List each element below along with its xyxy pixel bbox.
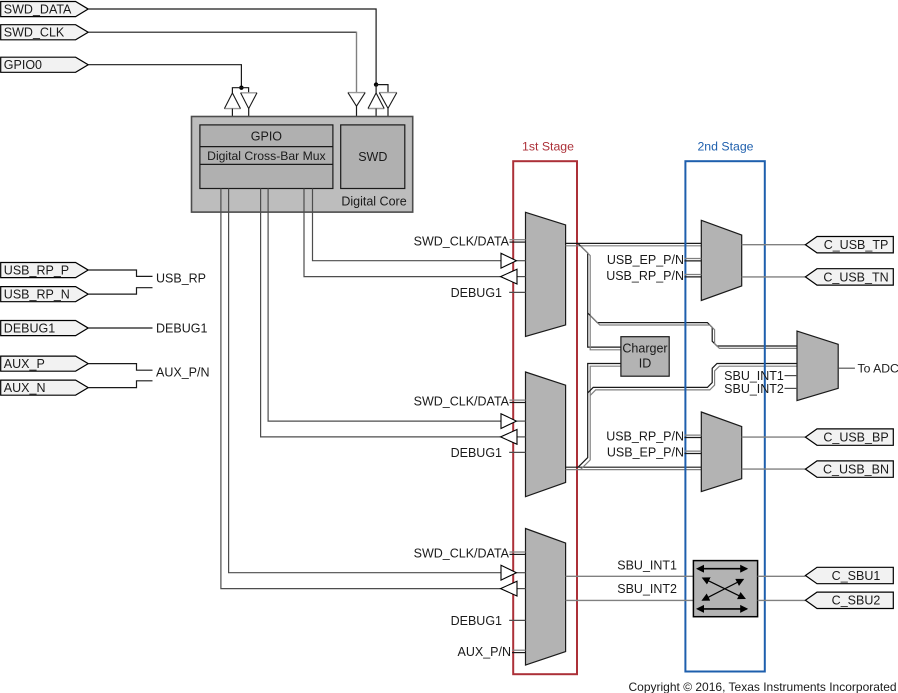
bus stub USB_EP_P/N into N1 xyxy=(684,259,701,261)
svg-text:AUX_P: AUX_P xyxy=(4,357,45,371)
svg-text:USB_EP_P/N: USB_EP_P/N xyxy=(607,446,684,460)
port flag C_SBU2 xyxy=(805,592,893,608)
wire AUX_N to AUX_P/N xyxy=(88,381,152,388)
mux U-ADC (to ADC) xyxy=(797,331,838,401)
port flag USB_RP_N xyxy=(1,287,89,302)
SBU crossbar switch block xyxy=(693,561,757,617)
bus stub USB_RP_P/N into N2 xyxy=(684,435,701,437)
wire N2 output C_USB_BP xyxy=(742,436,806,438)
net label SBU_INT2 (crossbar) xyxy=(617,582,677,596)
svg-text:USB_RP: USB_RP xyxy=(156,272,206,286)
port flag C_USB_BN xyxy=(805,461,893,477)
svg-text:SWD_CLK/DATA: SWD_CLK/DATA xyxy=(414,395,510,409)
svg-text:Copyright © 2016, Texas Instru: Copyright © 2016, Texas Instruments Inco… xyxy=(629,680,897,693)
svg-text:USB_RP_P: USB_RP_P xyxy=(4,263,69,277)
port flag C_SBU1 xyxy=(805,567,893,583)
wire crossbar to mux1 output buffer xyxy=(304,189,501,277)
svg-text:DEBUG1: DEBUG1 xyxy=(4,321,55,335)
bus stub USB_RP_P/N into N1 xyxy=(684,275,701,277)
svg-text:USB_RP_P/N: USB_RP_P/N xyxy=(606,269,684,283)
svg-text:SWD_CLK/DATA: SWD_CLK/DATA xyxy=(414,547,510,561)
2nd stage boundary box xyxy=(685,161,764,671)
net label USB_RP_P/N (N1) xyxy=(606,269,684,283)
wire AUX_P to AUX_P/N xyxy=(88,364,152,371)
output buffer M1 xyxy=(501,269,526,284)
bus stub SWD_CLK/DATA into M3 xyxy=(510,552,526,554)
svg-text:SWD_DATA: SWD_DATA xyxy=(4,2,72,16)
svg-text:C_USB_TP: C_USB_TP xyxy=(824,238,889,252)
port flag AUX_P xyxy=(1,356,89,371)
wire SBU_INT2 stub into ADC mux xyxy=(785,387,798,389)
wire DEBUG1 stub M1 xyxy=(509,291,525,293)
svg-text:DEBUG1: DEBUG1 xyxy=(451,286,502,300)
port flag C_USB_BP xyxy=(805,429,893,445)
port flag USB_RP_P xyxy=(1,263,89,278)
wire crossbar to mux1 input buffer xyxy=(313,189,502,261)
bus tee H1 to ADC mux input 1 xyxy=(588,313,797,348)
wire SBU_INT2 M3 to crossbar xyxy=(566,599,694,601)
net label AUX_P/N (M3) xyxy=(458,645,512,659)
bus branch down from B1 (vertical channel upper) xyxy=(578,243,621,349)
wire DEBUG1 flag to label xyxy=(88,327,152,329)
net label SWD_CLK/DATA (M3) xyxy=(414,547,510,561)
svg-text:USB_EP_P/N: USB_EP_P/N xyxy=(607,253,684,267)
svg-text:Digital Cross-Bar Mux: Digital Cross-Bar Mux xyxy=(207,149,326,163)
wire SWD_CLK xyxy=(88,32,356,93)
wire ADC mux output xyxy=(838,367,855,369)
net label DEBUG1 (left) xyxy=(156,321,207,335)
svg-text:DEBUG1: DEBUG1 xyxy=(156,321,207,335)
wire crossbar to C_SBU1 xyxy=(758,575,806,577)
svg-text:2nd Stage: 2nd Stage xyxy=(697,140,753,154)
wire DEBUG1 stub M2 xyxy=(509,451,525,453)
port flag SWD_DATA xyxy=(1,2,89,17)
wire N2 output C_USB_BN xyxy=(742,468,806,470)
wire DEBUG1 stub M3 xyxy=(509,619,525,621)
bus stub AUX_P/N into M3 xyxy=(512,650,526,652)
1st stage boundary box xyxy=(513,161,577,674)
svg-text:Digital Core: Digital Core xyxy=(341,194,406,208)
svg-text:SBU_INT2: SBU_INT2 xyxy=(617,582,677,596)
input buffer M3 xyxy=(501,565,526,580)
svg-text:C_SBU1: C_SBU1 xyxy=(832,569,881,583)
svg-text:GPIO: GPIO xyxy=(251,130,283,144)
wire crossbar to mux2 input buffer xyxy=(268,189,501,422)
net label SBU_INT2 (ADC mux) xyxy=(724,382,784,396)
svg-text:DEBUG1: DEBUG1 xyxy=(451,446,502,460)
wire SWD_DATA xyxy=(88,9,378,87)
wire SBU_INT1 M3 to crossbar xyxy=(566,575,694,577)
2nd stage label xyxy=(697,140,753,154)
wire N1 output C_USB_TP xyxy=(742,244,806,246)
svg-text:SWD: SWD xyxy=(358,150,387,164)
net label USB_EP_P/N (N2) xyxy=(607,446,684,460)
svg-text:USB_RP_P/N: USB_RP_P/N xyxy=(606,430,684,444)
svg-text:AUX_P/N: AUX_P/N xyxy=(458,645,512,659)
input buffer GPIO0 (down triangle) xyxy=(241,93,257,125)
net label DEBUG1 (M2) xyxy=(451,446,502,460)
net label SBU_INT1 (ADC mux) xyxy=(724,369,784,383)
mux N1 (2nd stage top) xyxy=(701,220,741,300)
bus stub SWD_CLK/DATA into M2 xyxy=(510,400,526,402)
svg-text:GPIO0: GPIO0 xyxy=(4,58,42,72)
input buffer SWD_CLK (down triangle) xyxy=(348,93,365,125)
wire GPIO0 pad junction legs xyxy=(232,88,248,93)
svg-text:USB_RP_N: USB_RP_N xyxy=(4,288,70,302)
port flag DEBUG1 xyxy=(1,321,89,336)
port flag AUX_N xyxy=(1,380,89,395)
bus stub USB_EP_P/N into N2 xyxy=(684,451,701,453)
svg-text:C_USB_BP: C_USB_BP xyxy=(823,431,888,445)
net label SWD_CLK/DATA (M1) xyxy=(414,234,510,248)
svg-text:DEBUG1: DEBUG1 xyxy=(451,614,502,628)
svg-text:To ADC: To ADC xyxy=(858,362,898,376)
bus tee H2 to ADC mux input 2 xyxy=(588,364,797,396)
net label USB_EP_P/N (N1) xyxy=(607,253,684,267)
wire crossbar to mux3 output buffer xyxy=(221,189,501,589)
net label DEBUG1 (M3) xyxy=(451,614,502,628)
svg-text:C_USB_BN: C_USB_BN xyxy=(823,463,889,477)
wire SWD_DATA hook to input buffer xyxy=(376,85,388,93)
svg-text:SBU_INT2: SBU_INT2 xyxy=(724,382,784,396)
bus M2 output to N2 xyxy=(566,467,702,469)
bus M1 output to N1 xyxy=(566,243,702,245)
port flag GPIO0 xyxy=(1,57,89,72)
svg-text:SBU_INT1: SBU_INT1 xyxy=(724,369,784,383)
output buffer SWD_DATA (up triangle) xyxy=(368,85,384,125)
bus stub SWD_CLK/DATA into M1 xyxy=(510,240,526,242)
net label AUX_P/N xyxy=(156,365,210,379)
mux M2 (1st stage middle) xyxy=(526,372,566,497)
svg-text:SWD_CLK: SWD_CLK xyxy=(4,26,65,40)
output buffer M2 xyxy=(501,430,526,445)
GPIO / cross-bar mux block xyxy=(200,125,333,189)
net label USB_RP xyxy=(156,272,206,286)
svg-text:1st Stage: 1st Stage xyxy=(522,140,574,154)
wire USB_RP_P to USB_RP xyxy=(88,270,152,276)
mux M3 (1st stage bottom) xyxy=(526,529,566,666)
digital core block xyxy=(192,117,413,213)
mux N2 (2nd stage middle) xyxy=(701,412,741,492)
copyright note xyxy=(629,680,897,693)
net label SWD_CLK/DATA (M2) xyxy=(414,395,510,409)
net label SBU_INT1 (crossbar) xyxy=(617,559,677,573)
wire crossbar to mux3 input buffer xyxy=(229,189,501,573)
svg-text:SWD_CLK/DATA: SWD_CLK/DATA xyxy=(414,234,510,248)
svg-text:SBU_INT1: SBU_INT1 xyxy=(617,559,677,573)
net label USB_RP_P/N (N2) xyxy=(606,430,684,444)
svg-text:C_SBU2: C_SBU2 xyxy=(832,594,881,608)
svg-text:Charger: Charger xyxy=(622,341,667,355)
port flag C_USB_TP xyxy=(805,237,893,253)
svg-text:ID: ID xyxy=(639,356,652,370)
output buffer M3 xyxy=(501,581,526,596)
wire crossbar to C_SBU2 xyxy=(758,599,806,601)
svg-text:C_USB_TN: C_USB_TN xyxy=(823,270,888,284)
port flag C_USB_TN xyxy=(805,269,893,285)
net label DEBUG1 (M1) xyxy=(451,286,502,300)
SWD block xyxy=(341,125,405,189)
input buffer SWD_DATA (down triangle) xyxy=(379,93,397,125)
wire crossbar to mux2 output buffer xyxy=(261,189,501,437)
wire SBU_INT1 stub into ADC mux xyxy=(785,375,798,377)
port flag SWD_CLK xyxy=(1,25,89,40)
net label To ADC xyxy=(858,362,898,376)
mux M1 (1st stage top) xyxy=(526,212,566,336)
output buffer GPIO0 (up triangle) xyxy=(224,93,240,125)
input buffer M1 xyxy=(501,253,526,268)
1st stage label xyxy=(522,140,574,154)
wire USB_RP_N to USB_RP xyxy=(88,288,152,294)
charger ID block xyxy=(621,337,669,377)
wire GPIO0 xyxy=(88,65,243,90)
svg-text:AUX_P/N: AUX_P/N xyxy=(156,365,210,379)
input buffer M2 xyxy=(501,414,526,429)
bus branch up from B3 (vertical channel lower) xyxy=(578,364,621,470)
svg-text:AUX_N: AUX_N xyxy=(4,381,46,395)
wire N1 output C_USB_TN xyxy=(742,276,806,278)
